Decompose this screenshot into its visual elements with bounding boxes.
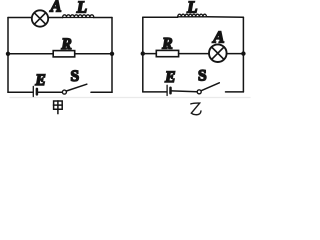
- battery E2 (long plate): [166, 85, 168, 95]
- inductor L2 (baseline): [178, 16, 207, 18]
- svg-text:E: E: [164, 69, 175, 86]
- wire: battery to switch (right circuit): [172, 90, 197, 93]
- wire: middle branch right segment: [75, 53, 112, 55]
- wire: bottom-left to battery: [8, 91, 33, 93]
- wire: inductor to top-right corner: [94, 17, 112, 19]
- svg-text:L: L: [76, 0, 87, 17]
- wire: switch fixed contact to bottom-right corner: [91, 91, 112, 93]
- wire: middle-left to resistor: [143, 53, 157, 55]
- battery E2 (short thick plate): [169, 88, 172, 94]
- node: middle-left junction dot: [6, 52, 10, 56]
- node: middle-left junction dot (right circuit): [141, 51, 145, 55]
- resistor R1 (box): [53, 51, 74, 57]
- wire: right vertical (right circuit): [242, 17, 244, 92]
- svg-text:R: R: [60, 36, 71, 53]
- lamp A2 (circle): [209, 44, 227, 62]
- label 甲 (left caption, drawn strokes): [54, 101, 63, 114]
- svg-text:L: L: [186, 0, 197, 16]
- svg-text:R: R: [161, 35, 172, 52]
- wire: top-left to inductor: [143, 16, 178, 18]
- faint scan streak under circuits: [10, 97, 250, 99]
- lamp A1 (X cross): [34, 13, 46, 25]
- svg-text:A: A: [49, 0, 61, 15]
- wire: battery to switch: [38, 91, 62, 93]
- battery E1 (short thick plate): [36, 89, 39, 95]
- switch S1 (pivot circle): [62, 90, 66, 94]
- inductor L1 (baseline): [63, 17, 94, 19]
- svg-text:S: S: [198, 68, 207, 85]
- wire: lamp to inductor: [48, 17, 63, 19]
- wire: inductor to top-right corner: [207, 16, 244, 18]
- label 乙 (right caption, drawn strokes): [191, 103, 201, 115]
- wire: left vertical (right circuit): [142, 17, 144, 92]
- lamp A2 (X cross): [212, 47, 224, 59]
- switch S2 (pivot circle): [197, 90, 201, 94]
- wire: lamp to middle-right dot: [227, 53, 244, 55]
- wire: right vertical (left circuit): [111, 18, 113, 93]
- node: middle-right junction dot (right circuit): [241, 51, 245, 55]
- svg-text:A: A: [212, 27, 224, 46]
- svg-text:E: E: [34, 72, 45, 89]
- svg-text:S: S: [70, 68, 79, 85]
- wire: top-left to lamp: [8, 17, 32, 19]
- lamp A1 (circle): [32, 10, 48, 26]
- wire: resistor to lamp: [179, 53, 209, 55]
- switch S2 (lever arm): [201, 83, 219, 91]
- wire: left vertical (left circuit): [7, 18, 9, 93]
- battery E1 (long plate): [32, 86, 34, 96]
- resistor R2 (box): [156, 50, 178, 56]
- inductor L2 (coil humps): [178, 14, 207, 17]
- wire: middle branch left segment: [8, 53, 53, 55]
- wire: switch fixed contact to bottom-right corner (right circuit): [226, 91, 244, 93]
- node: middle-right junction dot: [110, 52, 114, 56]
- wire: bottom-left to battery (right circuit): [143, 91, 167, 93]
- inductor L1 (coil humps): [63, 15, 94, 18]
- switch S1 (lever arm): [66, 84, 86, 91]
